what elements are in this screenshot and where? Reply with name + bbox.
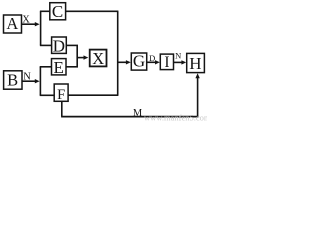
wire F bottom down bbox=[61, 101, 63, 116]
wire G to I with label D bbox=[147, 53, 160, 65]
box X bbox=[90, 49, 107, 68]
wire bus to C bbox=[40, 10, 50, 12]
wire D to merge bus bbox=[66, 44, 78, 46]
wire A to bus with label X bbox=[22, 14, 40, 26]
svg-text:N: N bbox=[23, 71, 31, 82]
svg-text:A: A bbox=[6, 14, 18, 33]
box C bbox=[50, 2, 66, 21]
box D bbox=[52, 36, 67, 55]
box A bbox=[4, 14, 22, 33]
svg-text:B: B bbox=[7, 71, 18, 90]
wire up into H bottom bbox=[195, 73, 199, 116]
bus E-F bbox=[39, 67, 41, 96]
box E bbox=[52, 58, 67, 77]
svg-text:H: H bbox=[189, 54, 201, 73]
svg-text:D: D bbox=[53, 36, 65, 55]
svg-text:N: N bbox=[175, 51, 181, 61]
wire I to H with label N bbox=[174, 51, 187, 65]
wire bus to D bbox=[40, 44, 52, 46]
svg-text:www.manfen5.com: www.manfen5.com bbox=[144, 112, 207, 122]
wire C to trunk bbox=[66, 10, 119, 12]
svg-text:X: X bbox=[22, 14, 30, 25]
wire E to merge bus bbox=[66, 66, 78, 68]
arrow merge bus to X bbox=[77, 55, 88, 59]
box G bbox=[131, 51, 146, 70]
svg-text:M: M bbox=[133, 108, 143, 119]
wire B to bus with label N bbox=[22, 71, 40, 83]
svg-text:F: F bbox=[57, 87, 65, 103]
wire F to trunk bbox=[68, 94, 118, 96]
svg-text:X: X bbox=[92, 49, 104, 68]
merge bus D-E bbox=[76, 45, 78, 66]
arrow trunk to G bbox=[118, 60, 131, 64]
bottom wire with label M bbox=[61, 116, 198, 118]
svg-text:G: G bbox=[133, 51, 145, 70]
wire bus to F bbox=[40, 94, 55, 96]
box F bbox=[54, 84, 68, 103]
svg-text:I: I bbox=[164, 54, 169, 71]
svg-text:C: C bbox=[52, 2, 63, 21]
box H bbox=[187, 53, 205, 72]
box I bbox=[160, 54, 173, 71]
box B bbox=[4, 71, 22, 90]
svg-text:D: D bbox=[149, 53, 155, 63]
svg-text:E: E bbox=[54, 58, 64, 77]
bus C-D bbox=[40, 11, 42, 45]
trunk vertical bbox=[117, 11, 119, 95]
wire bus to E bbox=[40, 66, 52, 68]
